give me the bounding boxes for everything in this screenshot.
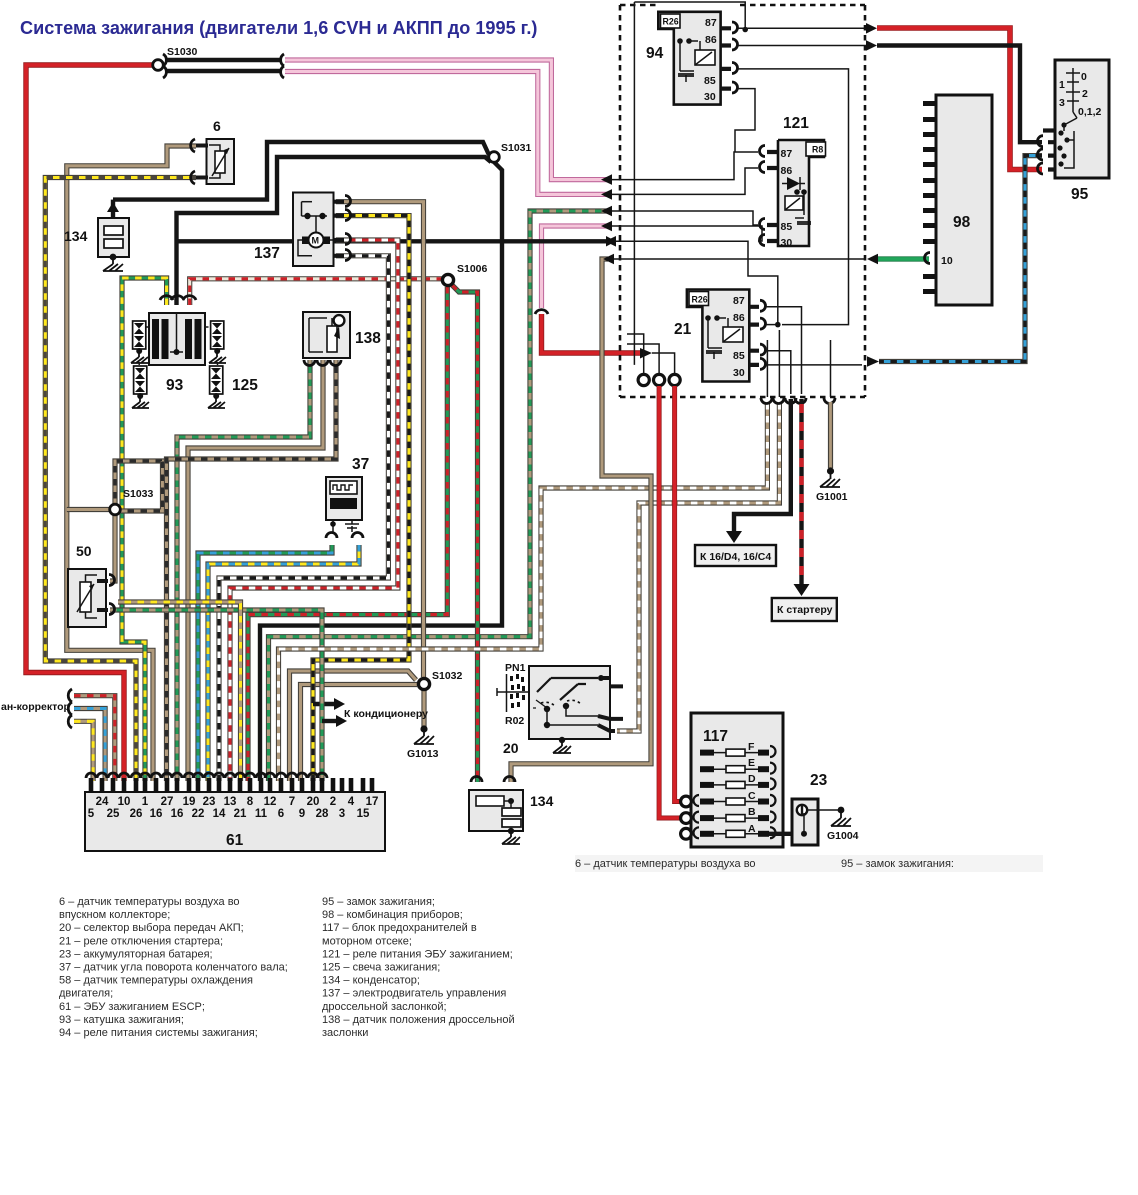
ECU 61 (85, 792, 385, 851)
svg-text:93: 93 (166, 377, 184, 394)
spark plugs 125 (4x) (131, 321, 148, 363)
arrows at dashed edge left (601, 174, 616, 246)
svg-text:134: 134 (530, 793, 554, 809)
relay 121 (778, 140, 824, 246)
relay 21 (687, 290, 749, 382)
legend echo lines in diagram area (575, 855, 1043, 872)
wire blue/green 37 left pin to ECU pin22 (198, 545, 332, 781)
wire tan component6 pin1 to left edge down S1033 (67, 146, 196, 781)
thick red to ignition switch 95 (866, 23, 877, 34)
ECU pin row (89, 778, 94, 793)
fuse box 117 (691, 713, 783, 847)
wire green/yellow coil pin1 to ECU pin1 (122, 278, 167, 781)
wire yellow/blue 37 right pin to ECU pin23 (208, 545, 359, 781)
svg-text:0,1,2: 0,1,2 (1078, 106, 1102, 118)
svg-text:134: 134 (64, 228, 88, 244)
thick black to ignition switch 95 (866, 40, 877, 51)
svg-text:20 – селектор выбора передач А: 20 – селектор выбора передач АКП; (59, 922, 244, 934)
wire tan/blue octane corrector to ECU pin24 (74, 709, 105, 782)
svg-text:10: 10 (941, 255, 953, 267)
svg-text:3: 3 (339, 808, 345, 820)
svg-text:3: 3 (1059, 97, 1065, 109)
wire black/tan 138 pin3 to ECU pin27 (167, 360, 337, 781)
svg-text:22: 22 (192, 808, 205, 820)
cyan/black wire 95 to relay 21 (879, 156, 1042, 362)
wire black/tan S1033 links (115, 461, 167, 505)
motor 137 (293, 193, 334, 267)
svg-text:17: 17 (366, 796, 379, 808)
relay 121 thin connection wires (612, 152, 758, 180)
crank sensor 37 (326, 477, 362, 520)
wire white/black 137 pin4 to ECU pin14b (219, 256, 388, 781)
wire tan 137 pin1 to S1032 (336, 202, 424, 677)
svg-text:85: 85 (704, 75, 716, 87)
svg-text:дроссельной заслонкой;: дроссельной заслонкой; (322, 1001, 447, 1013)
svg-text:К кондиционеру: К кондиционеру (344, 708, 428, 720)
svg-text:16: 16 (171, 808, 184, 820)
svg-text:12: 12 (264, 796, 277, 808)
svg-text:87: 87 (733, 295, 745, 307)
node S1031 (489, 152, 500, 163)
svg-text:1: 1 (1059, 79, 1065, 91)
black wire to K16/D4 box (734, 399, 791, 532)
svg-text:S1031: S1031 (501, 142, 532, 154)
svg-text:121 – реле питания ЭБУ зажиган: 121 – реле питания ЭБУ зажиганием; (322, 948, 513, 960)
wire tan/white A from dashed box to ECU pin6 (279, 403, 768, 781)
svg-text:117 – блок предохранителей в: 117 – блок предохранителей в (322, 922, 477, 934)
svg-text:2: 2 (1082, 88, 1088, 100)
svg-text:24: 24 (96, 796, 109, 808)
wire tan/yellow octane corrector to ECU pin5 (74, 721, 93, 781)
svg-text:5: 5 (88, 808, 95, 820)
wire red from S1030 down left edge to ECU pin 10 (26, 65, 152, 781)
svg-text:M: M (312, 236, 320, 246)
svg-text:7: 7 (289, 796, 295, 808)
wires exiting dashed box bottom (761, 398, 835, 404)
svg-text:9: 9 (299, 808, 305, 820)
wire twisted pair S1030 black (165, 58, 281, 62)
svg-text:61: 61 (226, 832, 244, 849)
svg-text:G1013: G1013 (407, 748, 439, 760)
wire red from pink3 to starter-relay circle line (542, 314, 642, 353)
svg-text:28: 28 (316, 808, 329, 820)
instrument cluster 98 (936, 95, 992, 305)
selector switch 20 (529, 666, 610, 739)
ignition switch 95 (1055, 60, 1109, 178)
svg-text:G1001: G1001 (816, 491, 848, 503)
svg-text:6 – датчик температуры воздуха: 6 – датчик температуры воздуха во (59, 896, 240, 908)
wire tan S1032 south to ground G1013 (421, 690, 426, 727)
svg-text:27: 27 (161, 796, 174, 808)
svg-text:ан-корректор: ан-корректор (1, 701, 70, 713)
relay 94 (658, 12, 720, 105)
svg-text:4: 4 (348, 796, 355, 808)
wire tan/white B from dashed box to selector 20 (617, 403, 779, 731)
node S1033 (110, 504, 121, 515)
svg-text:6: 6 (213, 118, 221, 134)
ignition coil 93 (149, 313, 205, 365)
thin loop wire over relay 94 (634, 2, 745, 365)
svg-text:85: 85 (781, 221, 793, 233)
svg-text:0: 0 (1081, 71, 1087, 83)
svg-text:21: 21 (234, 808, 247, 820)
octane corrector hooks (68, 689, 72, 728)
wire yellow/black component6 pin2 to left edge down to ECU pin26 (45, 178, 196, 782)
svg-text:11: 11 (255, 808, 268, 820)
wire green/red S1006 south to ECU pin12 (248, 287, 447, 781)
svg-text:1: 1 (142, 796, 149, 808)
wire tan C from arrow at 98 pin10 line down to capacitor 134 bottom (511, 259, 651, 782)
svg-text:61 – ЭБУ зажиганием ESCP;: 61 – ЭБУ зажиганием ESCP; (59, 1001, 205, 1013)
svg-text:S1033: S1033 (123, 488, 154, 500)
ground G1004 (831, 810, 851, 826)
wire white/red coil pin3 to node S1006 (190, 279, 442, 305)
svg-text:85: 85 (733, 350, 745, 362)
svg-text:19: 19 (183, 796, 196, 808)
svg-text:заслонки: заслонки (322, 1027, 368, 1039)
svg-text:моторном отсеке;: моторном отсеке; (322, 935, 412, 947)
svg-text:13: 13 (224, 796, 237, 808)
wire white/red 137 pin3 to ECU pin13 (230, 240, 398, 781)
svg-text:23 – аккумуляторная батарея;: 23 – аккумуляторная батарея; (59, 948, 213, 960)
ground G1013 (420, 725, 427, 732)
capacitor 134 bottom (469, 790, 523, 831)
svg-text:Система зажигания (двигатели 1: Система зажигания (двигатели 1,6 CVH и А… (20, 18, 537, 38)
svg-text:98: 98 (953, 214, 971, 231)
svg-text:R26: R26 (663, 17, 679, 27)
capacitor 134 top (98, 218, 129, 257)
wire yellow/tan to ECU pin21 (118, 602, 241, 781)
wire green to 98 pin10 (614, 258, 866, 260)
svg-text:21 – реле отключения стартера;: 21 – реле отключения стартера; (59, 935, 223, 947)
svg-text:50: 50 (76, 543, 92, 559)
svg-text:86: 86 (705, 34, 717, 46)
svg-text:6 – датчик температуры воздуха: 6 – датчик температуры воздуха во (575, 858, 756, 870)
svg-text:G1004: G1004 (827, 830, 859, 842)
svg-text:21: 21 (674, 321, 692, 338)
svg-text:S1032: S1032 (432, 670, 463, 682)
svg-text:93 – катушка зажигания;: 93 – катушка зажигания; (59, 1014, 184, 1026)
svg-text:14: 14 (213, 808, 226, 820)
svg-text:37: 37 (352, 456, 369, 473)
capacitor 134 arrow stem (111, 200, 115, 218)
wire pink2 (285, 72, 608, 195)
svg-text:20: 20 (503, 740, 519, 756)
svg-text:F: F (748, 741, 755, 753)
wire black thick S1031 lower to coil 93 (177, 157, 492, 305)
svg-text:95: 95 (1071, 186, 1089, 203)
arrow stub kept (334, 698, 345, 710)
wire black thick S1031 upper to cap 134 (113, 142, 489, 200)
wire green/tan striped to relay121 arrow, down to ECU pin7 (269, 211, 609, 781)
svg-text:23: 23 (203, 796, 216, 808)
svg-text:95 – замок зажигания;: 95 – замок зажигания; (322, 896, 435, 908)
wire green/tan 50 pin2 to conditioner arrow + ECU pin28 (110, 610, 322, 781)
svg-text:8: 8 (247, 796, 254, 808)
svg-text:117: 117 (703, 728, 728, 745)
dashed enclosure box (620, 5, 865, 397)
svg-text:E: E (748, 757, 755, 769)
svg-text:87: 87 (781, 148, 793, 160)
svg-text:58 – датчик температуры охлажд: 58 – датчик температуры охлаждения (59, 975, 253, 987)
wire yellow/black 137 pin2 to ECU pin20 + conditioner arrow (313, 216, 409, 781)
svg-text:20: 20 (307, 796, 320, 808)
sensor 50 (68, 569, 106, 627)
svg-text:125 – свеча зажигания;: 125 – свеча зажигания; (322, 962, 440, 974)
svg-text:95 – замок зажигания:: 95 – замок зажигания: (841, 858, 954, 870)
svg-text:26: 26 (130, 808, 143, 820)
svg-text:137 – электродвигатель управле: 137 – электродвигатель управления (322, 988, 506, 1000)
svg-text:C: C (748, 790, 756, 802)
svg-text:25: 25 (107, 808, 120, 820)
wire pink1 top to relay121 arrow (285, 60, 608, 180)
svg-text:К 16/D4, 16/C4: К 16/D4, 16/C4 (700, 551, 771, 563)
wire pink3 from arrow down to red transition (542, 226, 609, 308)
svg-text:30: 30 (704, 91, 716, 103)
wire tan/red octane corrector to ECU pin25 (74, 696, 115, 781)
svg-text:двигателя;: двигателя; (59, 988, 113, 1000)
svg-text:2: 2 (330, 796, 336, 808)
svg-text:впускном коллекторе;: впускном коллекторе; (59, 909, 170, 921)
throttle sensor 138 (303, 312, 350, 358)
svg-text:6: 6 (278, 808, 284, 820)
svg-text:23: 23 (810, 772, 828, 789)
svg-text:134 – конденсатор;: 134 – конденсатор; (322, 975, 420, 987)
connector circles to starter relay wires (638, 374, 649, 385)
svg-text:37 – датчик угла поворота коле: 37 – датчик угла поворота коленчатого ва… (59, 962, 288, 974)
svg-text:87: 87 (705, 17, 717, 29)
node S1030 (153, 60, 164, 71)
wire green/tan 138 pin1 to ECU pin16b (177, 360, 310, 781)
svg-text:15: 15 (357, 808, 370, 820)
tan wire to ground G1001 (828, 402, 833, 468)
red wires from circles to fuse box (659, 386, 682, 818)
svg-text:138 – датчик положения дроссел: 138 – датчик положения дроссельной (322, 1014, 515, 1026)
svg-text:86: 86 (781, 165, 793, 177)
svg-text:137: 137 (254, 245, 280, 262)
node S1006 (442, 274, 453, 285)
wire tan S1032 west to ECU pin6 (290, 671, 417, 781)
wire tan 138 pin2 to ECU pin19 (188, 360, 323, 781)
svg-text:30: 30 (733, 367, 745, 379)
svg-text:10: 10 (118, 796, 131, 808)
svg-text:R02: R02 (505, 715, 524, 727)
svg-text:A: A (748, 823, 756, 835)
svg-text:30: 30 (781, 237, 793, 249)
wire green/red S1006 jog south to capacitor 134 bottom (452, 285, 478, 782)
svg-text:S1006: S1006 (457, 263, 488, 275)
node S1032 (418, 678, 429, 689)
wire black thick S1031 south down to ECU pin 9 (260, 162, 502, 781)
relay 21 pin wires (766, 307, 802, 394)
svg-text:R26: R26 (692, 295, 708, 305)
svg-text:К стартеру: К стартеру (777, 604, 833, 616)
svg-text:PN1: PN1 (505, 662, 526, 674)
black/red wire to starter box (799, 399, 803, 586)
wire black junction to starter circles arrow (177, 239, 607, 243)
wire tan branch into S1033 node (67, 507, 109, 512)
svg-text:121: 121 (783, 115, 809, 132)
svg-text:94 – реле питания системы зажи: 94 – реле питания системы зажигания; (59, 1027, 258, 1039)
svg-text:138: 138 (355, 330, 381, 347)
svg-text:R8: R8 (812, 145, 823, 155)
svg-text:98 – комбинация приборов;: 98 – комбинация приборов; (322, 909, 463, 921)
sensor 6 (207, 139, 235, 184)
svg-text:125: 125 (232, 377, 258, 394)
svg-text:86: 86 (733, 312, 745, 324)
relay 94 pin wires (738, 27, 866, 29)
svg-text:B: B (748, 806, 756, 818)
svg-text:16: 16 (150, 808, 163, 820)
svg-text:D: D (748, 773, 756, 785)
battery 23 (769, 832, 800, 836)
svg-text:94: 94 (646, 45, 664, 62)
wire tan S1033 down to sensor 50 pin1 (110, 515, 115, 581)
svg-text:S1030: S1030 (167, 46, 198, 58)
